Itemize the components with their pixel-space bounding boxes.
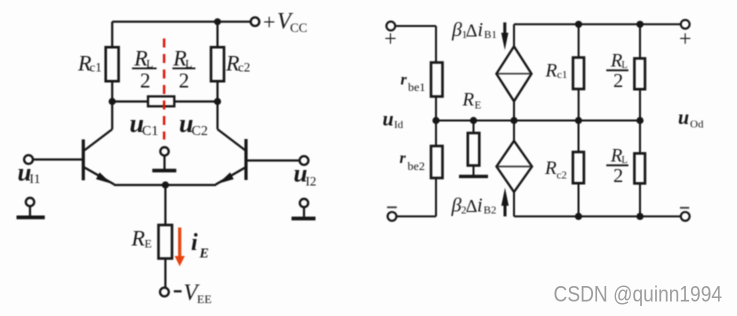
svg-text:R: R bbox=[544, 158, 557, 179]
svg-text:C2: C2 bbox=[192, 124, 208, 139]
svg-text:2: 2 bbox=[179, 68, 190, 92]
svg-text:be1: be1 bbox=[408, 80, 425, 94]
svg-text:I1: I1 bbox=[30, 171, 41, 186]
svg-text:i: i bbox=[478, 19, 484, 41]
svg-text:c2: c2 bbox=[238, 60, 250, 75]
svg-text:CSDN @quinn1994: CSDN @quinn1994 bbox=[554, 282, 723, 307]
svg-text:i: i bbox=[191, 230, 198, 256]
svg-text:Δ: Δ bbox=[466, 20, 478, 40]
svg-text:+: + bbox=[679, 26, 691, 51]
svg-text:i: i bbox=[477, 194, 483, 216]
svg-text:Δ: Δ bbox=[466, 196, 478, 216]
svg-text:u: u bbox=[678, 107, 689, 129]
svg-text:+: + bbox=[384, 26, 396, 51]
svg-text:+: + bbox=[263, 9, 275, 34]
svg-text:c1: c1 bbox=[557, 69, 567, 81]
svg-text:I2: I2 bbox=[306, 174, 317, 189]
svg-text:E: E bbox=[475, 99, 482, 111]
svg-text:c1: c1 bbox=[90, 60, 102, 75]
svg-text:E: E bbox=[145, 237, 152, 251]
svg-text:2: 2 bbox=[140, 68, 151, 92]
svg-text:r: r bbox=[400, 150, 407, 167]
svg-text:B1: B1 bbox=[484, 29, 497, 41]
svg-text:R: R bbox=[462, 90, 475, 111]
svg-text:2: 2 bbox=[613, 70, 623, 92]
svg-text:β: β bbox=[451, 19, 462, 41]
svg-text:Id: Id bbox=[394, 119, 404, 131]
svg-text:2: 2 bbox=[613, 165, 623, 187]
svg-text:c2: c2 bbox=[557, 170, 567, 182]
svg-text:B2: B2 bbox=[484, 204, 497, 216]
svg-text:β: β bbox=[451, 194, 462, 216]
svg-text:C1: C1 bbox=[142, 124, 158, 139]
svg-text:R: R bbox=[545, 61, 558, 82]
svg-text:R: R bbox=[131, 226, 146, 251]
svg-text:CC: CC bbox=[290, 20, 307, 35]
svg-text:u: u bbox=[383, 109, 394, 131]
svg-text:be2: be2 bbox=[408, 159, 425, 173]
svg-text:EE: EE bbox=[197, 292, 212, 306]
svg-text:Od: Od bbox=[690, 118, 704, 130]
svg-text:r: r bbox=[401, 72, 408, 89]
svg-text:E: E bbox=[199, 247, 209, 262]
